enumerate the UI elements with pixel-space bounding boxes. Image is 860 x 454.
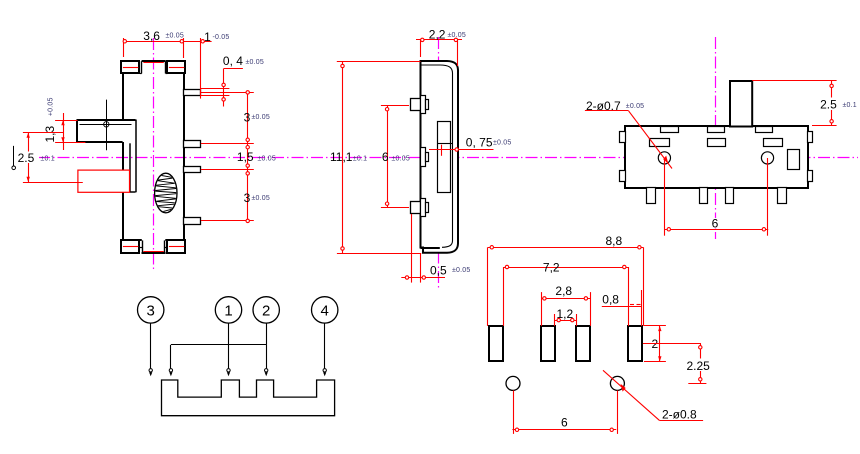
terminal number circle 2	[253, 297, 279, 323]
pcb pad 1	[489, 326, 503, 361]
view3 contact windows	[650, 139, 783, 147]
terminal comb profile	[162, 380, 335, 416]
view1 top-left mounting tab	[121, 61, 142, 74]
centerline horizontal main axis	[38, 157, 858, 159]
svg-text:±0.05: ±0.05	[252, 114, 270, 121]
svg-text:7,2: 7,2	[543, 261, 560, 275]
pcb hole right	[610, 376, 624, 390]
view1 knurled oval knob	[155, 173, 177, 213]
leader from circle 4	[323, 323, 326, 376]
view1 switch body outline	[121, 61, 186, 240]
view2 pin bottom	[411, 199, 429, 217]
svg-text:0, 75: 0, 75	[466, 136, 493, 150]
view2 side body outline	[421, 61, 459, 253]
leader from circle 3	[149, 323, 152, 376]
terminal number circle 1	[215, 297, 241, 323]
svg-text:±0.1: ±0.1	[41, 156, 55, 163]
centerline vertical view2	[438, 37, 440, 290]
dim 0,4 +-0.05 pin thickness	[201, 54, 264, 107]
pcb pad 3	[576, 326, 590, 361]
svg-text:+0.05: +0.05	[47, 97, 54, 116]
pcb pad 4	[628, 326, 642, 361]
view2 pin middle	[421, 148, 429, 167]
view1 tab red lines	[123, 63, 184, 252]
view3 rivet hole right	[761, 152, 773, 164]
svg-text:2.5: 2.5	[18, 151, 35, 165]
svg-text:8,8: 8,8	[606, 234, 623, 248]
dim 0,5 +-0.05 pin offset	[401, 214, 470, 283]
view3 detent window	[788, 150, 800, 170]
svg-text:2: 2	[652, 337, 659, 351]
dim 0,75 +-0.05 pin tip thickness	[429, 136, 511, 156]
view2 slider groove	[437, 122, 452, 193]
svg-text:±0.1: ±0.1	[843, 102, 857, 109]
svg-text:±0.1: ±0.1	[353, 156, 367, 163]
svg-text:3: 3	[244, 191, 251, 205]
svg-text:2.5: 2.5	[820, 98, 837, 112]
leader from circle 2 with jog	[169, 323, 268, 376]
svg-text:2-ø0.7: 2-ø0.7	[586, 99, 621, 113]
centerline vertical view3	[715, 37, 717, 239]
view3 side tabs	[620, 132, 813, 182]
view1 bottom-right mounting tab	[167, 240, 185, 253]
svg-text:±0.05: ±0.05	[252, 195, 270, 202]
svg-text:4: 4	[321, 302, 329, 319]
svg-text:6: 6	[712, 217, 719, 231]
dim 1,2 middle pads gap	[555, 307, 577, 326]
view1 terminal pin 4	[184, 218, 201, 225]
dim 2.5 +-0.1 knob height	[752, 81, 859, 126]
svg-text:3,6: 3,6	[143, 29, 160, 43]
label 2-o0.8 holes leader	[603, 370, 703, 421]
svg-text:1: 1	[224, 302, 232, 319]
label 2-o0.7 rivet holes leader	[585, 99, 672, 169]
terminal number circle 4	[312, 297, 338, 323]
svg-text:±0.05: ±0.05	[258, 156, 276, 163]
svg-text:3: 3	[147, 302, 155, 319]
direction arrow far left	[12, 146, 16, 170]
dim 8,8 footprint overall	[488, 234, 644, 326]
svg-text:±0.05: ±0.05	[448, 32, 466, 39]
dim 7,2 footprint inner	[503, 261, 628, 326]
svg-text:6: 6	[382, 150, 389, 164]
svg-text:0, 4: 0, 4	[223, 54, 243, 68]
dim 6 +-0.05 outer pin span	[381, 105, 410, 208]
svg-text:2-ø0.8: 2-ø0.8	[662, 408, 697, 422]
svg-text:0,5: 0,5	[430, 264, 447, 278]
view3 slide knob	[730, 81, 752, 127]
leader from circle 1	[227, 323, 230, 376]
dim 6 hole spacing footprint	[512, 390, 617, 434]
dim 2,2 +-0.05 body depth	[416, 28, 466, 66]
pcb pad 2	[541, 326, 555, 361]
view1 bottom-left mounting tab	[121, 240, 139, 253]
svg-text:2,2: 2,2	[429, 28, 446, 42]
dim 2.5 +-0.1 lever travel	[16, 133, 83, 183]
svg-text:2: 2	[262, 302, 270, 319]
view1 lever alternate position (red)	[78, 170, 130, 192]
svg-text:±0.05: ±0.05	[392, 156, 410, 163]
svg-text:±0.05: ±0.05	[246, 59, 264, 66]
dim 1 -0.05 pin length	[204, 30, 229, 44]
view1 datum target crosshair	[104, 100, 109, 151]
view1 top-right mounting tab	[166, 61, 186, 74]
svg-text:2,8: 2,8	[555, 284, 572, 298]
svg-text:6: 6	[561, 416, 568, 430]
centerline vertical view1	[153, 38, 155, 272]
dim 0,8 pad width	[602, 290, 642, 326]
svg-text:±0.05: ±0.05	[166, 33, 184, 40]
svg-text:1,5: 1,5	[237, 150, 254, 164]
dim 6 hole spacing view3	[664, 158, 768, 236]
dim 1,3 +0.05 lever height	[43, 97, 86, 150]
dim 2,8 middle pads outer	[541, 284, 590, 326]
view1 bottom middle tongue tray	[140, 240, 167, 253]
svg-text:0,8: 0,8	[602, 292, 619, 306]
svg-text:±0.05: ±0.05	[493, 140, 511, 147]
dim 2.25 pad to hole	[643, 344, 710, 384]
svg-text:2.25: 2.25	[687, 359, 711, 373]
view1 terminal pin 2	[184, 141, 201, 148]
view3 rivet hole left	[658, 152, 670, 164]
view3 top body outline	[625, 126, 808, 188]
svg-text:±0.05: ±0.05	[626, 103, 644, 110]
svg-text:±0.05: ±0.05	[452, 267, 470, 274]
svg-text:-0.05: -0.05	[213, 34, 230, 41]
dim stack 3 / 1,5 / 3 pin pitch	[201, 91, 276, 223]
dim 2 pad height	[644, 326, 666, 362]
svg-text:1,2: 1,2	[557, 307, 574, 321]
view3 bottom pins	[647, 188, 787, 204]
view1 terminal pin 3	[184, 167, 201, 173]
view2 pin top	[411, 96, 429, 114]
svg-text:3: 3	[244, 110, 251, 124]
view1 side lever actuator	[77, 120, 136, 193]
svg-text:1,3: 1,3	[43, 125, 57, 142]
svg-text:1: 1	[204, 30, 211, 44]
view3 top edge slots	[661, 127, 773, 133]
svg-text:11,1: 11,1	[330, 150, 353, 164]
dim 3,6 +-0.05 body width	[123, 29, 212, 99]
pcb hole left	[506, 376, 520, 390]
view1 terminal pin 1	[184, 90, 201, 96]
terminal number circle 3	[138, 297, 164, 323]
dim 11,1 +-0.1 overall height	[330, 62, 421, 254]
